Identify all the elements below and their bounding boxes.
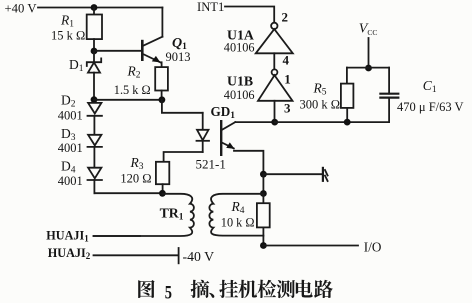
node base junction <box>91 48 98 55</box>
wire to R2 bottom <box>94 99 162 101</box>
svg-text:GD1: GD1 <box>211 104 236 121</box>
svg-text:3: 3 <box>284 101 291 116</box>
junction on +40V rail <box>91 4 98 11</box>
svg-text:R3: R3 <box>130 155 144 172</box>
zener diode D1 <box>69 51 101 100</box>
wire Vcc top rail <box>347 67 389 69</box>
svg-text:VCC: VCC <box>359 22 378 38</box>
svg-text:1.5 k Ω: 1.5 k Ω <box>114 83 151 97</box>
transistor Q1 <box>142 8 190 68</box>
svg-text:521-1: 521-1 <box>196 157 226 172</box>
node -40V terminal <box>179 248 214 264</box>
node +40V label <box>5 2 38 16</box>
pin 1 of U1B <box>284 71 291 86</box>
svg-text:C1: C1 <box>423 78 437 95</box>
diode D4 <box>58 159 102 194</box>
wire +40V rail <box>38 7 162 9</box>
resistor R3 <box>120 155 169 193</box>
wire U1B input down <box>274 101 276 122</box>
ground <box>323 168 328 181</box>
optocoupler GD1 phototransistor <box>221 121 275 174</box>
capacitor C1 <box>380 68 463 123</box>
pin 4 of U1A <box>283 53 290 68</box>
wire emitter node down <box>262 174 264 193</box>
node I/O label <box>364 240 382 255</box>
svg-text:1: 1 <box>284 71 291 86</box>
svg-text:R5: R5 <box>313 81 327 98</box>
svg-text:-40 V: -40 V <box>183 249 215 264</box>
wire base <box>94 50 142 52</box>
wire I/O <box>263 245 358 247</box>
svg-text:9013: 9013 <box>166 50 191 64</box>
node INT1 label <box>197 0 224 14</box>
pin 3 of U1B <box>284 101 291 116</box>
svg-text:4001: 4001 <box>58 141 83 155</box>
svg-text:15 k Ω: 15 k Ω <box>51 28 85 42</box>
inverter U1A 40106 <box>224 23 293 55</box>
svg-text:4001: 4001 <box>58 174 83 188</box>
svg-text:INT1: INT1 <box>197 0 224 14</box>
svg-text:470 μ F/63 V: 470 μ F/63 V <box>397 100 464 114</box>
svg-text:HUAJI2: HUAJI2 <box>48 246 91 261</box>
svg-text:HUAJI1: HUAJI1 <box>46 229 89 244</box>
svg-text:R2: R2 <box>127 64 141 81</box>
node Vcc label <box>359 22 378 38</box>
node D2 top junction <box>91 96 98 103</box>
wire LED to R3 <box>164 152 203 162</box>
pin 2 of U1A <box>282 10 289 25</box>
wire to chassis ground <box>263 173 323 175</box>
node Vcc junction <box>365 65 372 72</box>
caption <box>165 282 172 303</box>
wire R2 node to LED <box>162 100 203 113</box>
wire Vcc stem <box>368 38 370 68</box>
svg-text:+40 V: +40 V <box>5 2 38 16</box>
node HUAJI1 label <box>46 229 89 244</box>
diode D2 <box>58 93 102 135</box>
svg-text:40106: 40106 <box>224 88 255 102</box>
svg-text:D4: D4 <box>61 159 76 176</box>
wire U1A to U1B <box>273 53 275 69</box>
node GD1 emitter / ground junction <box>260 171 267 178</box>
inverter U1B 40106 <box>224 69 293 102</box>
node R5 bottom <box>344 119 351 126</box>
svg-text:I/O: I/O <box>364 240 382 255</box>
wire HUAJI2 to -40V <box>94 254 179 256</box>
svg-text:120 Ω: 120 Ω <box>120 172 151 186</box>
resistor R1 <box>51 8 102 52</box>
svg-text:D1: D1 <box>69 57 84 74</box>
resistor R4 <box>221 194 270 246</box>
wire bottom rail <box>275 121 389 123</box>
node I/O junction <box>260 242 267 249</box>
svg-text:U1B: U1B <box>227 73 253 88</box>
node HUAJI2 label <box>48 246 91 261</box>
diode D3 <box>58 126 102 168</box>
svg-text:TR1: TR1 <box>160 206 184 223</box>
transformer TR1 primary <box>94 194 194 236</box>
node R4 top junction <box>260 190 267 197</box>
svg-text:4001: 4001 <box>58 109 83 123</box>
svg-text:2: 2 <box>282 10 289 25</box>
svg-text:R4: R4 <box>231 199 245 216</box>
wire INT1 to U1A output <box>225 7 274 23</box>
svg-text:5: 5 <box>165 282 172 303</box>
resistor R2 <box>114 64 168 100</box>
svg-text:D2: D2 <box>61 93 76 110</box>
node R3 bottom <box>159 190 166 197</box>
svg-text:40106: 40106 <box>224 40 255 54</box>
svg-text:R1: R1 <box>60 13 74 30</box>
transformer TR1 secondary <box>209 194 263 236</box>
svg-text:4: 4 <box>283 53 290 68</box>
svg-text:10 k Ω: 10 k Ω <box>221 216 255 230</box>
svg-text:300 k Ω: 300 k Ω <box>300 98 341 112</box>
node R2 bottom <box>159 96 166 103</box>
wire D4 to R3 bottom <box>94 192 162 194</box>
node U1B input junction <box>271 119 278 126</box>
wire HUAJI1 (joins TR1 primary bottom) <box>94 235 141 237</box>
resistor R5 <box>300 68 354 123</box>
optocoupler GD1 LED <box>196 104 236 172</box>
